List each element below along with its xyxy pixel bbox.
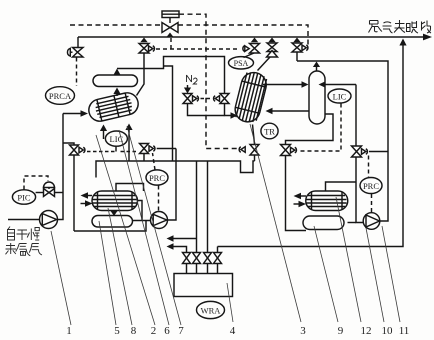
vessel center liquefier drum [233,70,269,125]
wire liquid header with loop seal [96,161,255,178]
svg-text:TR: TR [264,127,275,137]
wire N2 pilot dashes [201,98,212,100]
pump chlorine blower [40,211,58,229]
valve drum drain left [63,143,85,231]
wire bottom header to vent riser [218,39,407,247]
wire leader 8 [108,208,132,325]
valve PRCA control valve top left [67,37,83,57]
wire leader 2 [96,135,155,325]
svg-text:PRC: PRC [149,173,165,183]
instrument LIC [328,89,351,103]
wire pill to pump [133,220,151,222]
wire column overhead line [297,61,388,221]
svg-text:11: 11 [399,325,410,337]
node inlet label 自干燥来氯气 [6,227,42,256]
instrument PSA [229,57,254,69]
wire arrow drum to pill [113,88,120,97]
valve vent via PSA [243,38,260,58]
pump right circulating [363,213,380,230]
svg-text:PSA: PSA [234,59,249,68]
wire leader 11 [382,226,400,322]
instrument TR [261,123,278,139]
svg-text:7: 7 [178,325,184,337]
vessel left drum separator [87,91,141,124]
wire leader 1 [51,231,71,325]
instrument PRC center [146,170,168,185]
valve relief from center drum [258,38,278,71]
valve vapor vent from left drum [139,38,154,54]
wire instrument signal dashed top [70,25,308,45]
valve PIC control with diaphragm [36,182,63,196]
svg-text:PRCA: PRCA [49,91,72,101]
vessel WRA sampling box [174,274,233,297]
wire coolant out arrow left exchanger [81,192,93,198]
valve vent from column [292,38,308,62]
wire column liquid back to drum [266,108,310,114]
wire WRA feed line 3 [207,161,209,252]
wire N2 inlet arrow [184,85,191,94]
wire jog to lower header [164,66,173,161]
wire chlorine inlet line [8,219,40,221]
wire leader 7 [127,126,181,325]
valve column bottoms control [281,145,297,156]
vessel left top pill [93,75,137,87]
wire chlorine feed riser [58,114,64,220]
wire reflux return into column [319,81,357,87]
wire chlorine inlet arrow to left drum [63,110,88,116]
instrument LIC left [105,131,127,146]
valve liquid chlorine drain [239,125,259,162]
valve top vent control valve with positioner box [162,11,179,37]
wire tail gas header y37 [78,34,432,41]
valve process gas to drum [214,94,229,104]
instrument PRC right [360,178,382,194]
svg-text:5: 5 [114,325,120,337]
wire drum vapor line [137,53,145,96]
wire leader 3 [250,124,301,322]
svg-text:12: 12 [361,325,372,337]
wire leader 5 [99,221,116,325]
wire LIC stem [115,146,117,151]
wire pill vapor to PSA header [117,57,238,119]
svg-text:WRA: WRA [201,306,222,316]
wire LIC signal dashed [299,104,342,152]
wire bottoms down to right pill [286,156,307,231]
wire coolant in arrow right exchanger [294,201,307,207]
svg-text:9: 9 [338,325,344,337]
wire leader 12 [336,197,361,322]
wire pump riser x176 [168,149,177,221]
heat-exchanger right condenser [306,191,348,211]
node N2 label [187,75,198,84]
svg-text:8: 8 [131,325,137,337]
svg-text:3: 3 [300,325,306,337]
wire arrow exchanger to pill [110,211,117,217]
wire left exchanger top pipe [116,184,144,192]
wire signal from positioner to loop [179,14,240,148]
instrument WRA [197,301,225,318]
valve WRA 3 [204,253,212,274]
wire WRA branch arrows left [167,235,218,252]
wire leader 10 [366,228,384,322]
wire leader 4 [227,283,233,322]
wire column top stem [313,62,320,72]
valve reflux control [352,146,389,157]
heat-exchanger left cooler [92,191,138,211]
wire drum bottom tap left arrow [100,125,107,140]
valve N2 makeup [183,94,198,104]
wire drum bottom tap right arrow [125,124,132,162]
wire leader 6 [119,130,169,325]
wire coolant out arrow right exchanger [294,193,307,199]
wire column bottoms line [286,114,334,144]
wire PRC right signals dashed [369,156,372,213]
valve WRA 4 [214,253,222,274]
wire WRA feed line 2 [196,161,198,252]
node tail gas label 尾气去吸收 [369,20,432,33]
wire right exchanger top pipe [326,182,357,191]
wire pill to pump suction [348,222,357,224]
wire dashed pilot line y49 [156,38,240,49]
svg-text:1: 1 [66,325,72,337]
wire arrow pill vapor up [113,69,120,76]
svg-text:6: 6 [164,325,170,337]
wire leader 9 [314,226,338,322]
svg-text:10: 10 [382,325,394,337]
svg-text:LIC: LIC [333,91,347,101]
valve WRA 1 [183,253,191,274]
wire drain bottom line [74,221,146,232]
svg-text:2: 2 [151,325,157,337]
wire dashed to PRCA [76,58,78,87]
wire LIC signal dashed to valve [87,151,137,153]
wire reflux riser x356 [356,85,364,223]
wire exchanger outlet to pump [138,201,143,221]
svg-text:PIC: PIC [17,193,31,203]
instrument PIC [12,190,35,204]
wire PIC signal dashed [24,176,48,190]
wire N2 to drum [188,104,225,116]
valve WRA 2 [193,253,201,274]
valve recycle control center [140,144,177,162]
svg-text:PRC: PRC [363,181,379,191]
wire feed drum to column [263,81,309,87]
pump center circulating [151,212,168,229]
vessel right receiver pill [303,216,344,230]
vessel chlorine column [309,71,325,124]
instrument PRCA [46,87,75,105]
wire coolant in arrow left exchanger [81,200,93,206]
wire PRC center signals dashed [153,153,159,212]
svg-text:4: 4 [230,325,236,337]
vessel left receiver pill [92,216,133,228]
